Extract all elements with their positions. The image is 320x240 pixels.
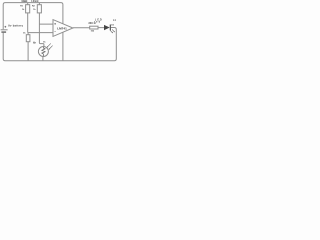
- svg-text:9v battery: 9v battery: [8, 24, 23, 28]
- svg-text:LM741: LM741: [57, 26, 67, 30]
- svg-text:10kΩ: 10kΩ: [31, 0, 38, 3]
- svg-text:ldr: ldr: [33, 42, 36, 44]
- svg-text:10kΩ: 10kΩ: [21, 0, 27, 3]
